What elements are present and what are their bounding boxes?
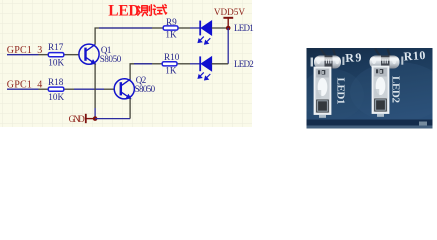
resistor R18 pins (39, 88, 49, 90)
svg-text:10K: 10K (48, 92, 64, 102)
wire R10 to LED2 (190, 63, 200, 65)
resistor R17 body (48, 53, 64, 57)
solder pad below LED2 (377, 114, 384, 117)
wire Q2 emitter down (129, 98, 131, 118)
wire R18 to Q2 (74, 88, 104, 90)
resistor R10 pins (152, 63, 162, 65)
silk tick left of R9 (photo) (311, 58, 313, 67)
svg-text:R10: R10 (164, 52, 180, 62)
LED LED1 (198, 21, 211, 44)
svg-text:10K: 10K (48, 57, 64, 67)
svg-text:R9: R9 (166, 17, 177, 27)
gnd junction dot (93, 116, 98, 121)
resistor R9 pins (152, 27, 163, 29)
wire GPC1_3 (7, 54, 39, 56)
svg-text:VDD5V: VDD5V (214, 7, 245, 17)
resistor R17 pins (39, 54, 49, 56)
title LED测试 (108, 2, 166, 19)
pin LED2 anode to corner (212, 63, 229, 65)
svg-text:R18: R18 (48, 77, 64, 87)
resistor R10 body (162, 62, 177, 66)
pin LED1 anode to node (212, 27, 229, 29)
PCB photo (300, 48, 437, 129)
svg-text:LED2: LED2 (390, 76, 402, 104)
schematic sheet background (0, 0, 252, 127)
svg-text:S8050: S8050 (135, 84, 156, 94)
transistor Q1 (79, 44, 122, 64)
wire Q1 emitter down (94, 64, 96, 108)
resistor body R9 (photo) (314, 56, 341, 69)
resistor body R10 (photo) (370, 56, 400, 69)
svg-text:LED: LED (108, 2, 139, 19)
power port GND (69, 114, 96, 124)
LED package LED1 (photo) (315, 68, 331, 115)
wire gnd horizontal (95, 118, 130, 120)
resistor lead wires (photo) (321, 49, 391, 58)
svg-text:GND: GND (69, 114, 86, 124)
svg-text:1K: 1K (165, 30, 177, 40)
wire row1 (99, 27, 152, 29)
solder pad below LED1 (319, 115, 326, 118)
power port VDD5V (214, 7, 245, 28)
svg-text:LED1: LED1 (234, 23, 254, 33)
LED LED2 (198, 56, 211, 79)
solder pad right edge (419, 122, 427, 126)
svg-text:R17: R17 (48, 42, 64, 52)
svg-text:S8050: S8050 (100, 54, 122, 64)
wire GPC1_4 (7, 88, 39, 90)
transistor Q2 (114, 75, 155, 99)
svg-text:R10: R10 (403, 48, 426, 64)
svg-text:LED1: LED1 (335, 78, 347, 105)
resistor R9 body (163, 26, 178, 30)
LED package LED2 (photo) (373, 67, 389, 114)
resistor R18 body (48, 87, 64, 91)
wire Q2 collector up to row2 (130, 64, 152, 80)
svg-text:1K: 1K (165, 66, 177, 76)
photo background (307, 48, 433, 129)
wire VDD node down to row2 (227, 28, 229, 64)
wire Q1 collector up to row1 (95, 28, 152, 45)
svg-text:R9: R9 (345, 50, 363, 65)
svg-text:LED2: LED2 (234, 59, 254, 69)
wire R9 to LED1 (190, 27, 200, 29)
node junction dot (226, 26, 231, 31)
